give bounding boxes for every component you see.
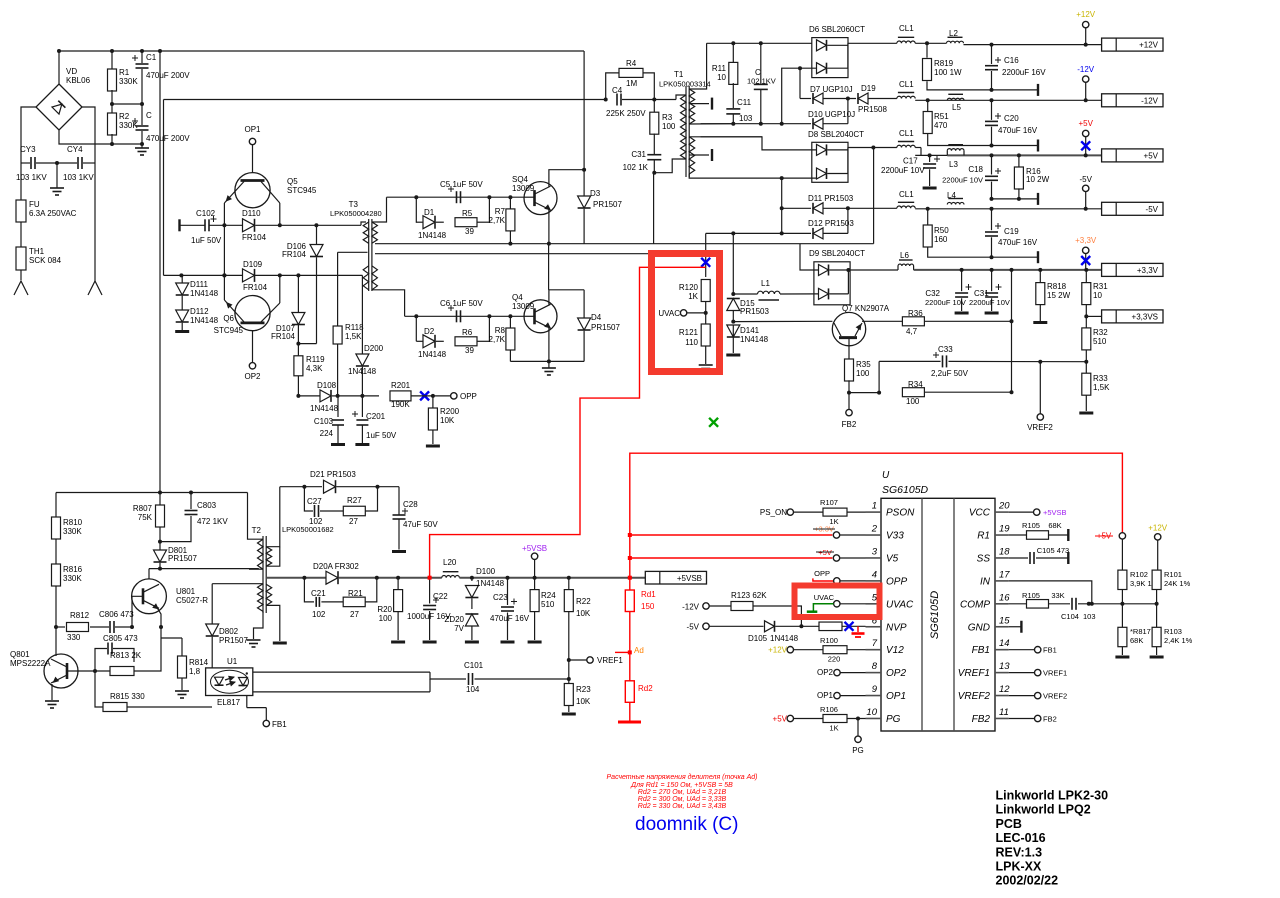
capacitor C31 102 1K: [623, 150, 662, 175]
svg-text:TH1: TH1: [29, 247, 45, 256]
svg-text:OP2: OP2: [817, 668, 834, 677]
svg-text:R6: R6: [462, 328, 473, 337]
highlight box UVAC divider: [652, 254, 720, 372]
wire D802 top row: [212, 583, 263, 585]
svg-text:OP1: OP1: [817, 691, 834, 700]
label +5V struck right: [1095, 532, 1113, 541]
svg-text:2200uF 16V: 2200uF 16V: [1002, 68, 1046, 77]
wire +5V out to CL1: [848, 146, 897, 150]
svg-text:160: 160: [934, 235, 948, 244]
diode D109 FR104: [243, 260, 268, 292]
inductor CL1 +12V: [897, 24, 915, 43]
svg-text:470uF 16V: 470uF 16V: [490, 614, 530, 623]
wire bridge ac left: [21, 107, 36, 163]
resistor R118 1,5K: [333, 252, 364, 396]
wire Q4 emitter: [510, 328, 551, 363]
svg-text:R23: R23: [576, 685, 591, 694]
svg-text:D8 SBL2040CT: D8 SBL2040CT: [808, 130, 864, 139]
diode D3 PR1507: [578, 170, 623, 244]
terminal VREF1 pin13: [1009, 669, 1067, 678]
svg-text:C23: C23: [493, 593, 508, 602]
inductor L5: [947, 94, 964, 112]
svg-text:FB1: FB1: [1043, 646, 1057, 655]
svg-text:6.3A 250VAC: 6.3A 250VAC: [29, 209, 77, 218]
wire SQ4 base: [524, 196, 535, 198]
diode box D8 SBL2040CT: [808, 130, 864, 182]
svg-text:11: 11: [999, 707, 1009, 718]
svg-text:R105: R105: [1022, 521, 1040, 530]
svg-text:100: 100: [856, 369, 870, 378]
resistor R50 160: [923, 209, 949, 247]
svg-text:SG6105D: SG6105D: [929, 591, 941, 639]
terminal FB2: [842, 409, 857, 429]
svg-text:C33: C33: [938, 345, 953, 354]
resistor R813 2K: [110, 638, 161, 676]
wire UVAC feed top: [706, 231, 811, 235]
wire D11 D12 feeds: [780, 178, 784, 233]
svg-text:10: 10: [717, 73, 726, 82]
connector +3.3VS: [1086, 310, 1163, 323]
svg-text:15 2W: 15 2W: [1047, 291, 1071, 300]
svg-text:R1: R1: [977, 531, 990, 542]
svg-text:STC945: STC945: [214, 326, 244, 335]
resistor R818 15 2W: [1036, 270, 1071, 321]
svg-text:PS_ON: PS_ON: [760, 508, 787, 517]
capacitor C6 1uF 50V: [440, 299, 483, 322]
svg-text:8: 8: [872, 661, 878, 672]
svg-text:10K: 10K: [576, 609, 591, 618]
ground Q4 emitter: [542, 361, 556, 375]
transistor Q4 13009: [512, 293, 557, 333]
svg-text:13009: 13009: [512, 184, 535, 193]
svg-text:220: 220: [828, 655, 841, 664]
node T-bar return1: [1037, 84, 1039, 96]
svg-text:1N4148: 1N4148: [190, 289, 219, 298]
connector +3.3V: [1102, 263, 1163, 276]
svg-text:2002/02/22: 2002/02/22: [996, 874, 1059, 888]
svg-text:PCB: PCB: [996, 817, 1022, 831]
diode D801 PR1507: [154, 546, 198, 569]
svg-text:OPP: OPP: [886, 576, 907, 587]
red wire Rd2 to ground: [629, 702, 631, 721]
node bar T2 sec2: [273, 642, 287, 645]
red ground NVP: [852, 626, 865, 637]
wire emitter to R814: [159, 625, 163, 638]
svg-text:KBL06: KBL06: [66, 76, 91, 85]
svg-text:470uF 16V: 470uF 16V: [998, 238, 1038, 247]
svg-text:R3: R3: [662, 113, 673, 122]
node T-bar return4: [1037, 251, 1039, 263]
capacitor C32 2200uF 10V: [925, 270, 972, 311]
svg-text:R50: R50: [934, 226, 949, 235]
wire T1 sec top bottom lead: [689, 123, 733, 125]
svg-text:1,5K: 1,5K: [345, 332, 362, 341]
terminal V5: [833, 555, 865, 561]
wire D20A out: [339, 576, 398, 580]
svg-text:LPK-XX: LPK-XX: [996, 860, 1043, 874]
svg-text:R7: R7: [495, 207, 506, 216]
terminal OPP: [451, 392, 477, 401]
wire U801 base: [132, 596, 143, 627]
svg-text:10K: 10K: [576, 697, 591, 706]
svg-text:R51: R51: [934, 112, 949, 121]
svg-text:C5 1uF 50V: C5 1uF 50V: [440, 180, 483, 189]
terminal -12V: [1077, 65, 1095, 100]
svg-text:1N4148: 1N4148: [740, 335, 769, 344]
wire bridge plus to rail: [57, 49, 61, 84]
svg-text:R20: R20: [377, 605, 392, 614]
node bar R817: [1115, 656, 1129, 659]
wire Q801 collector: [55, 654, 57, 656]
wire U1 out bottom: [253, 691, 430, 693]
wire drive line: [375, 148, 874, 244]
inductor L2: [947, 29, 964, 43]
red annotation line2: [630, 782, 733, 789]
svg-text:C805 473: C805 473: [103, 634, 138, 643]
red annotation line5: [638, 803, 727, 810]
svg-text:Q7 KN2907A: Q7 KN2907A: [842, 304, 890, 313]
terminal OP1: [244, 125, 261, 145]
svg-text:doomnik (C): doomnik (C): [635, 814, 738, 835]
node bar R23: [562, 713, 576, 716]
svg-text:OP2: OP2: [886, 668, 906, 679]
node T-bar C102 row: [178, 219, 180, 231]
terminal PS_ON: [760, 508, 824, 517]
svg-text:470uF 200V: 470uF 200V: [146, 71, 190, 80]
connector +12V: [1102, 38, 1163, 51]
svg-text:4,7: 4,7: [906, 327, 918, 336]
svg-text:C28: C28: [403, 500, 418, 509]
capacitor C33 2,2uF 50V: [931, 345, 969, 378]
svg-text:D802: D802: [219, 627, 239, 636]
svg-text:510: 510: [541, 600, 555, 609]
node bar C32: [955, 312, 969, 315]
resistor R31 10: [1082, 270, 1108, 328]
wire IN pin17: [1009, 581, 1092, 604]
resistor R2 330K: [108, 90, 139, 146]
svg-text:D9 SBL2040CT: D9 SBL2040CT: [809, 249, 865, 258]
svg-text:D112: D112: [190, 307, 209, 316]
wire C6 row: [405, 314, 524, 318]
svg-text:Rd2 = 300 Ом, UAd = 3,33В: Rd2 = 300 Ом, UAd = 3,33В: [638, 796, 727, 803]
svg-text:R33: R33: [1093, 374, 1108, 383]
wire Q6 base to OP2: [252, 331, 254, 363]
svg-text:R11: R11: [712, 64, 727, 73]
wire D8 top input: [701, 137, 817, 150]
svg-text:1uF 50V: 1uF 50V: [366, 431, 397, 440]
node T-bar SS: [1067, 552, 1069, 564]
svg-text:T3: T3: [349, 200, 359, 209]
wire AC right leg: [94, 163, 96, 281]
red wire to V5: [628, 556, 833, 560]
svg-text:R22: R22: [576, 597, 591, 606]
wire D2 branch: [416, 316, 489, 341]
svg-text:VD: VD: [66, 67, 77, 76]
inductor L20: [442, 558, 460, 578]
red wire 5VSB riser: [628, 453, 1123, 580]
svg-text:C18: C18: [968, 165, 983, 174]
svg-text:102 1K: 102 1K: [623, 163, 649, 172]
wire UVAC feed vertical: [705, 233, 707, 277]
wire T1 sec centertap top: [689, 98, 712, 110]
diode D200 1N4148: [348, 275, 384, 396]
ground CY mid: [50, 161, 64, 195]
wire L1 to D9: [780, 293, 819, 295]
svg-text:R24: R24: [541, 591, 556, 600]
svg-text:SCK 084: SCK 084: [29, 256, 62, 265]
terminal OP2: [244, 363, 261, 381]
svg-text:C104: C104: [1061, 612, 1079, 621]
wire R36 to rail: [925, 320, 1012, 322]
node bar D141: [726, 354, 740, 357]
svg-text:SG6105D: SG6105D: [882, 484, 929, 496]
svg-text:7: 7: [872, 638, 878, 649]
capacitor C1 470uF 200V: [132, 49, 190, 104]
svg-text:R815 330: R815 330: [110, 692, 145, 701]
svg-text:OP1: OP1: [886, 691, 906, 702]
svg-text:1N4148: 1N4148: [476, 579, 505, 588]
terminal V33: [833, 532, 865, 538]
svg-text:C102: C102: [196, 209, 216, 218]
svg-text:Rd2 = 270 Ом, UAd = 3,21В: Rd2 = 270 Ом, UAd = 3,21В: [638, 789, 727, 796]
wire Q4 collector: [549, 244, 585, 305]
svg-text:FR104: FR104: [271, 332, 296, 341]
inductor L3: [947, 145, 964, 169]
resistor R819 100 1W: [923, 43, 963, 80]
svg-text:R103: R103: [1164, 627, 1182, 636]
svg-text:1N4148: 1N4148: [418, 350, 447, 359]
svg-text:L4: L4: [947, 191, 956, 200]
wire R50 return: [928, 248, 1038, 258]
resistor R814 1,8: [161, 638, 209, 690]
svg-text:CL1: CL1: [899, 190, 914, 199]
wire T2 sec2 bottom: [266, 605, 280, 641]
svg-text:C32: C32: [925, 289, 940, 298]
diode D11 PR1503: [782, 194, 854, 214]
node bar C23: [501, 641, 515, 644]
svg-text:OPP: OPP: [460, 392, 477, 401]
svg-text:1N4148: 1N4148: [348, 367, 377, 376]
resistor R35 100: [845, 359, 872, 381]
svg-text:100: 100: [662, 122, 676, 131]
svg-text:12: 12: [999, 684, 1010, 695]
svg-text:14: 14: [999, 638, 1010, 649]
resistor R106 1K: [820, 705, 865, 733]
wire -5V out: [848, 207, 897, 209]
wire SQ4 collector drop: [582, 51, 586, 172]
wire D21 row: [280, 485, 322, 489]
svg-text:L2: L2: [949, 29, 958, 38]
svg-text:D111: D111: [190, 280, 208, 289]
capacitor C11 103: [726, 83, 753, 126]
svg-text:R27: R27: [347, 496, 362, 505]
wire D6 bottom input: [780, 68, 817, 126]
svg-text:LPK050001682: LPK050001682: [282, 525, 334, 534]
svg-text:PR1503: PR1503: [740, 307, 769, 316]
svg-text:C16: C16: [1004, 56, 1019, 65]
resistor R34 100: [902, 380, 1013, 406]
resistor R24 510: [530, 578, 556, 640]
capacitor C23 470uF 16V: [490, 578, 530, 640]
node T-bar return2: [1037, 140, 1039, 152]
svg-text:103 1KV: 103 1KV: [63, 173, 94, 182]
red wire Rd1 to Rd2: [628, 612, 632, 681]
ground R121: [699, 365, 713, 372]
capacitor C104 103: [1061, 598, 1122, 621]
svg-text:18: 18: [999, 546, 1010, 557]
wire R119 to OPP row: [296, 376, 319, 398]
wire U801 collector row: [149, 567, 259, 571]
svg-text:-5V: -5V: [1146, 205, 1159, 214]
resistor R105 68K pin19: [1009, 521, 1069, 539]
svg-text:FR104: FR104: [242, 233, 267, 242]
terminal +3.3V: [1075, 236, 1097, 270]
node T-bar R1: [1067, 529, 1069, 541]
capacitor CY3 103 1KV: [16, 145, 57, 182]
node bar R818: [1033, 321, 1047, 324]
svg-text:R107: R107: [820, 498, 838, 507]
capacitor C31b 2200uF 10V: [969, 270, 1010, 311]
label +5V PG: [773, 715, 824, 724]
svg-text:Rd2: Rd2: [638, 684, 653, 693]
svg-text:+5VSB: +5VSB: [1043, 508, 1067, 517]
svg-text:Linkworld LPQ2: Linkworld LPQ2: [996, 803, 1091, 817]
terminal VCC +5VSB: [1009, 508, 1067, 517]
wire OPP row: [336, 394, 379, 398]
svg-text:13009: 13009: [512, 302, 535, 311]
resistor R817 68K: [1118, 627, 1151, 655]
svg-text:V33: V33: [886, 531, 904, 542]
svg-text:100: 100: [906, 397, 920, 406]
svg-text:R2: R2: [119, 112, 130, 121]
capacitor C2 470uF 200V: [132, 104, 190, 144]
resistor R5 39: [436, 209, 489, 236]
svg-text:C27: C27: [307, 497, 322, 506]
wire drive row upper: [256, 222, 367, 227]
resistor R120 1K: [679, 280, 710, 302]
svg-text:470uF 200V: 470uF 200V: [146, 134, 190, 143]
svg-text:224: 224: [320, 429, 334, 438]
wire Q5 emitter rail: [222, 203, 226, 300]
svg-text:D141: D141: [740, 326, 760, 335]
wire T2 primary bottom: [249, 568, 263, 570]
svg-text:U: U: [882, 470, 890, 481]
svg-text:C21: C21: [311, 589, 326, 598]
IC right pins 11-20: [958, 501, 1011, 725]
wire SQ4 emitter: [508, 210, 551, 246]
svg-text:1K: 1K: [829, 724, 838, 733]
diode D802 PR1507: [206, 584, 249, 668]
diode D108 1N4148: [310, 381, 339, 413]
svg-text:+3,3VS: +3,3VS: [1132, 312, 1158, 321]
transformer T3 LPK050004280: [330, 200, 382, 291]
wire SQ4 collector: [549, 170, 584, 187]
terminal FB1 pin14: [1009, 646, 1057, 655]
svg-text:D2: D2: [424, 327, 435, 336]
wire Q6 collector drop: [279, 275, 281, 303]
svg-text:L3: L3: [949, 160, 958, 169]
svg-text:10: 10: [1093, 291, 1102, 300]
wire CL1 to L2: [915, 41, 946, 45]
svg-text:2,2uF 50V: 2,2uF 50V: [931, 369, 969, 378]
svg-text:FB2: FB2: [1043, 715, 1057, 724]
svg-text:LPK050003314: LPK050003314: [659, 80, 711, 89]
wire C5 row: [387, 195, 525, 199]
svg-text:68K: 68K: [1048, 521, 1061, 530]
transistor SQ4 13009: [512, 175, 557, 215]
capacitor C5 1uF 50V: [440, 180, 483, 203]
svg-text:R1: R1: [119, 68, 130, 77]
svg-text:VCC: VCC: [969, 508, 991, 519]
wire T3 top winding top lead: [372, 197, 387, 222]
label +5V struck: [816, 548, 834, 557]
wire D1 branch: [416, 197, 489, 222]
svg-text:102: 102: [312, 610, 326, 619]
svg-text:R21: R21: [348, 589, 363, 598]
wire R23 link: [568, 660, 570, 684]
terminal VREF2 pin12: [1009, 692, 1067, 701]
svg-text:+3,3V: +3,3V: [1137, 266, 1159, 275]
terminal OP1 pin: [817, 691, 866, 700]
svg-text:PSON: PSON: [886, 508, 915, 519]
svg-text:R5: R5: [462, 209, 473, 218]
wire T1 sec top lead: [689, 43, 706, 89]
terminal VREF1: [587, 656, 624, 665]
svg-text:D20A FR302: D20A FR302: [313, 562, 359, 571]
terminal UVAC pin: [814, 593, 866, 607]
capacitor CY4 103 1KV: [57, 145, 95, 182]
svg-text:R812: R812: [70, 611, 90, 620]
diode D111 1N4148: [176, 277, 219, 298]
svg-text:V12: V12: [886, 645, 904, 656]
wire midline: [164, 99, 606, 101]
svg-text:20: 20: [998, 501, 1010, 512]
svg-text:PR1508: PR1508: [858, 105, 887, 114]
wire D21 out: [337, 485, 400, 489]
svg-text:V5: V5: [886, 553, 899, 564]
svg-text:COMP: COMP: [960, 599, 990, 610]
resistor R33 1,5K: [1082, 373, 1110, 411]
svg-text:190K: 190K: [391, 400, 410, 409]
svg-text:NVP: NVP: [886, 622, 907, 633]
node bar C22: [423, 641, 437, 644]
svg-text:D19: D19: [861, 84, 876, 93]
svg-text:16: 16: [999, 592, 1010, 603]
wire T1 sec2 centertap: [689, 149, 712, 161]
svg-text:4,3K: 4,3K: [306, 364, 323, 373]
capacitor C 102 1KV: [747, 43, 776, 125]
svg-text:+5V: +5V: [773, 715, 788, 724]
svg-text:1uF 50V: 1uF 50V: [191, 236, 222, 245]
capacitor C22 1000uF 16V: [407, 578, 451, 640]
svg-text:225K 250V: 225K 250V: [606, 109, 646, 118]
resistor Rd1 150 red: [625, 578, 656, 612]
svg-text:R201: R201: [391, 381, 411, 390]
wire aux top line: [56, 491, 248, 495]
svg-text:CY4: CY4: [67, 145, 83, 154]
svg-text:+12V: +12V: [1139, 41, 1159, 50]
node bar R33: [1079, 412, 1093, 415]
svg-text:C1: C1: [146, 53, 157, 62]
svg-text:104: 104: [466, 685, 480, 694]
svg-text:330K: 330K: [63, 527, 82, 536]
svg-text:4: 4: [872, 569, 877, 580]
resistor R4 1M: [606, 59, 655, 100]
svg-text:ZD20: ZD20: [444, 615, 464, 624]
resistor R22 10K: [564, 578, 591, 662]
resistor R200 10K: [428, 396, 459, 444]
svg-text:102 1KV: 102 1KV: [747, 77, 776, 86]
